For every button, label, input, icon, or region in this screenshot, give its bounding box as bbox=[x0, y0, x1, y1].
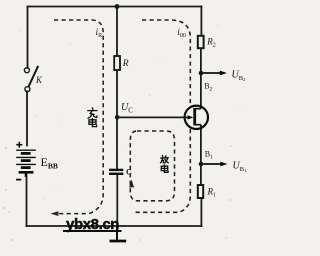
svg-text:C: C bbox=[126, 168, 132, 177]
switch K blade bbox=[29, 66, 39, 87]
wire bottom horizontal bbox=[27, 225, 202, 227]
transistor B2 lead inside circle bbox=[200, 105, 202, 108]
wire right vertical (top corner to R2) bbox=[200, 7, 202, 36]
wire left vertical (top segment to switch) bbox=[27, 7, 29, 69]
charging loop arrowhead bbox=[51, 211, 59, 216]
wire middle vertical (R to node Uc) bbox=[116, 70, 118, 117]
wire top horizontal bbox=[28, 6, 202, 8]
discharging loop arrowhead (up, on left edge) bbox=[129, 180, 134, 188]
svg-text:R: R bbox=[122, 59, 129, 69]
switch K circles bbox=[24, 68, 30, 92]
resistor R bbox=[114, 56, 120, 70]
resistor R1 bbox=[198, 185, 203, 198]
transistor base bar bbox=[193, 108, 196, 126]
label charging (chinese) bbox=[88, 108, 97, 127]
wire right vertical (R1 to bottom corner) bbox=[200, 198, 202, 226]
wire middle vertical (node Uc to capacitor) bbox=[116, 117, 118, 169]
interbase current loop dashed path bbox=[136, 20, 191, 212]
transistor B1 lead elbow bbox=[195, 124, 201, 126]
wire emitter horizontal (node Uc to transistor) bbox=[117, 116, 189, 118]
watermark underline bbox=[63, 230, 122, 232]
node B1 junction dot bbox=[199, 162, 204, 167]
charging loop dashed path bbox=[54, 20, 103, 214]
battery EBB plates bbox=[16, 150, 36, 177]
discharging loop dashed rounded rect bbox=[130, 131, 174, 201]
ground bar bbox=[110, 240, 127, 243]
transistor UJT circle bbox=[185, 106, 208, 129]
battery minus sign bbox=[16, 179, 21, 181]
wire middle vertical (top to resistor R) bbox=[116, 7, 118, 57]
ground stub bbox=[116, 226, 118, 241]
wire middle vertical (capacitor to bottom) bbox=[116, 175, 118, 226]
wire left vertical (switch to battery) bbox=[26, 91, 28, 145]
output arrow UB2 bbox=[203, 72, 221, 74]
node Uc junction dot bbox=[115, 115, 120, 120]
paper background bbox=[0, 0, 249, 256]
transistor emitter wire inside circle bbox=[185, 116, 189, 118]
wire right vertical (R2 to transistor B2 lead) bbox=[200, 48, 202, 108]
transistor B2 lead elbow bbox=[195, 108, 201, 110]
wire right vertical (transistor B1 lead to R1) bbox=[200, 125, 202, 185]
transistor B1 lead inside circle bbox=[200, 125, 202, 130]
wire left vertical (battery to bottom corner) bbox=[26, 177, 28, 227]
capacitor C plates bbox=[109, 170, 123, 174]
output arrow UB1 bbox=[203, 163, 222, 165]
label discharging (chinese) bbox=[160, 156, 168, 173]
transistor emitter arrowhead bbox=[188, 115, 194, 119]
node junction dot top bbox=[115, 4, 120, 9]
node B2 junction dot bbox=[199, 71, 204, 76]
svg-text:K: K bbox=[35, 75, 43, 85]
battery EBB plus sign bbox=[16, 142, 22, 148]
resistor R2 bbox=[198, 36, 204, 48]
